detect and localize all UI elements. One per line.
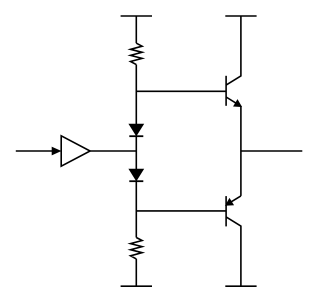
transistor Q2 emitter arrowhead (226, 199, 233, 205)
output wire (241, 150, 302, 152)
wire node B to Q2 base (136, 210, 226, 212)
resistor R1 (131, 43, 143, 64)
supply rail V- right (225, 285, 256, 287)
transistor Q2 base bar (225, 196, 227, 226)
buffer U1 (61, 136, 90, 166)
input arrowhead (52, 147, 60, 154)
transistor Q1 base bar (225, 76, 227, 106)
wire rail to R1 (135, 16, 137, 43)
diode D1 (129, 124, 143, 136)
wire U1 output to diode node (90, 150, 136, 152)
wire D2 to R2 (135, 181, 137, 237)
diode D2 (129, 169, 143, 181)
transistor Q1 emitter arrowhead (234, 100, 241, 106)
input wire (16, 150, 53, 152)
wire node A to Q1 base (136, 90, 226, 92)
transistor Q2 emitter (226, 196, 241, 205)
supply rail V+ left (121, 15, 152, 17)
supply rail V- left (121, 285, 152, 287)
transistor Q1 emitter (226, 97, 241, 106)
wire D1 to D2 (135, 136, 137, 169)
supply rail V+ right (225, 15, 256, 17)
wire R2 to rail (135, 259, 137, 286)
wire rail to Q1 collector (226, 16, 241, 85)
wire Q2 collector to rail (226, 217, 241, 286)
wire R1 to D1 (135, 65, 137, 125)
resistor R2 (131, 238, 143, 259)
wire Q1 emitter to Q2 emitter (240, 106, 242, 196)
